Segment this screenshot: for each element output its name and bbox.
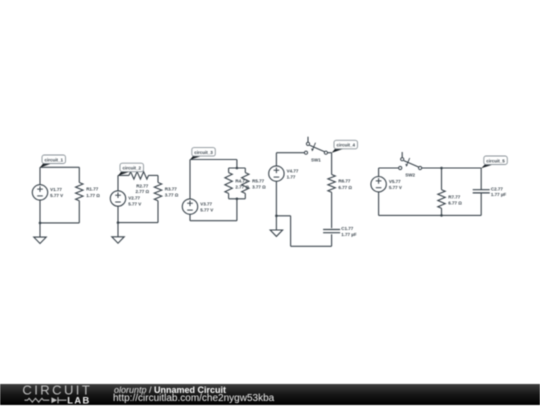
svg-text:6.77 Ω: 6.77 Ω [338, 185, 352, 190]
svg-text:V4.77: V4.77 [287, 168, 299, 173]
svg-text:1.77 µF: 1.77 µF [341, 232, 357, 237]
svg-text:SW2: SW2 [405, 173, 415, 178]
svg-text:C1.77: C1.77 [341, 226, 354, 231]
svg-text:R3.77: R3.77 [165, 186, 178, 191]
svg-text:5.77 V: 5.77 V [128, 202, 141, 207]
svg-text:C2.77: C2.77 [491, 186, 504, 191]
svg-text:6.77 Ω: 6.77 Ω [448, 200, 462, 205]
svg-text:R4.77: R4.77 [235, 178, 248, 183]
svg-text:V3.77: V3.77 [200, 201, 212, 206]
svg-text:circuit_3: circuit_3 [194, 150, 213, 155]
svg-text:R6.77: R6.77 [338, 179, 351, 184]
svg-text:circuit_4: circuit_4 [336, 143, 355, 148]
svg-text:V5.77: V5.77 [389, 179, 401, 184]
svg-text:1.77: 1.77 [287, 175, 296, 180]
svg-text:2.77 Ω: 2.77 Ω [135, 189, 149, 194]
svg-text:R7.77: R7.77 [448, 194, 461, 199]
svg-text:circuit_1: circuit_1 [44, 157, 63, 162]
svg-text:1.77 µF: 1.77 µF [491, 192, 507, 197]
svg-text:circuit_2: circuit_2 [122, 166, 141, 171]
svg-text:V2.77: V2.77 [128, 195, 140, 200]
svg-text:circuit_5: circuit_5 [486, 158, 505, 163]
svg-text:5.77 V: 5.77 V [200, 208, 213, 213]
svg-text:R5.77: R5.77 [252, 178, 265, 183]
svg-text:LAB: LAB [67, 395, 90, 405]
svg-text:R1.77: R1.77 [86, 187, 99, 192]
svg-text:5.77 V: 5.77 V [50, 193, 63, 198]
svg-text:3.77 Ω: 3.77 Ω [252, 184, 266, 189]
svg-text:2.77 Ω: 2.77 Ω [235, 184, 249, 189]
svg-text:5.77 V: 5.77 V [389, 185, 402, 190]
svg-text:1.77 Ω: 1.77 Ω [86, 193, 100, 198]
svg-text:SW1: SW1 [311, 157, 321, 162]
svg-text:V1.77: V1.77 [50, 187, 62, 192]
svg-text:R2.77: R2.77 [136, 183, 149, 188]
svg-text:3.77 Ω: 3.77 Ω [165, 193, 179, 198]
